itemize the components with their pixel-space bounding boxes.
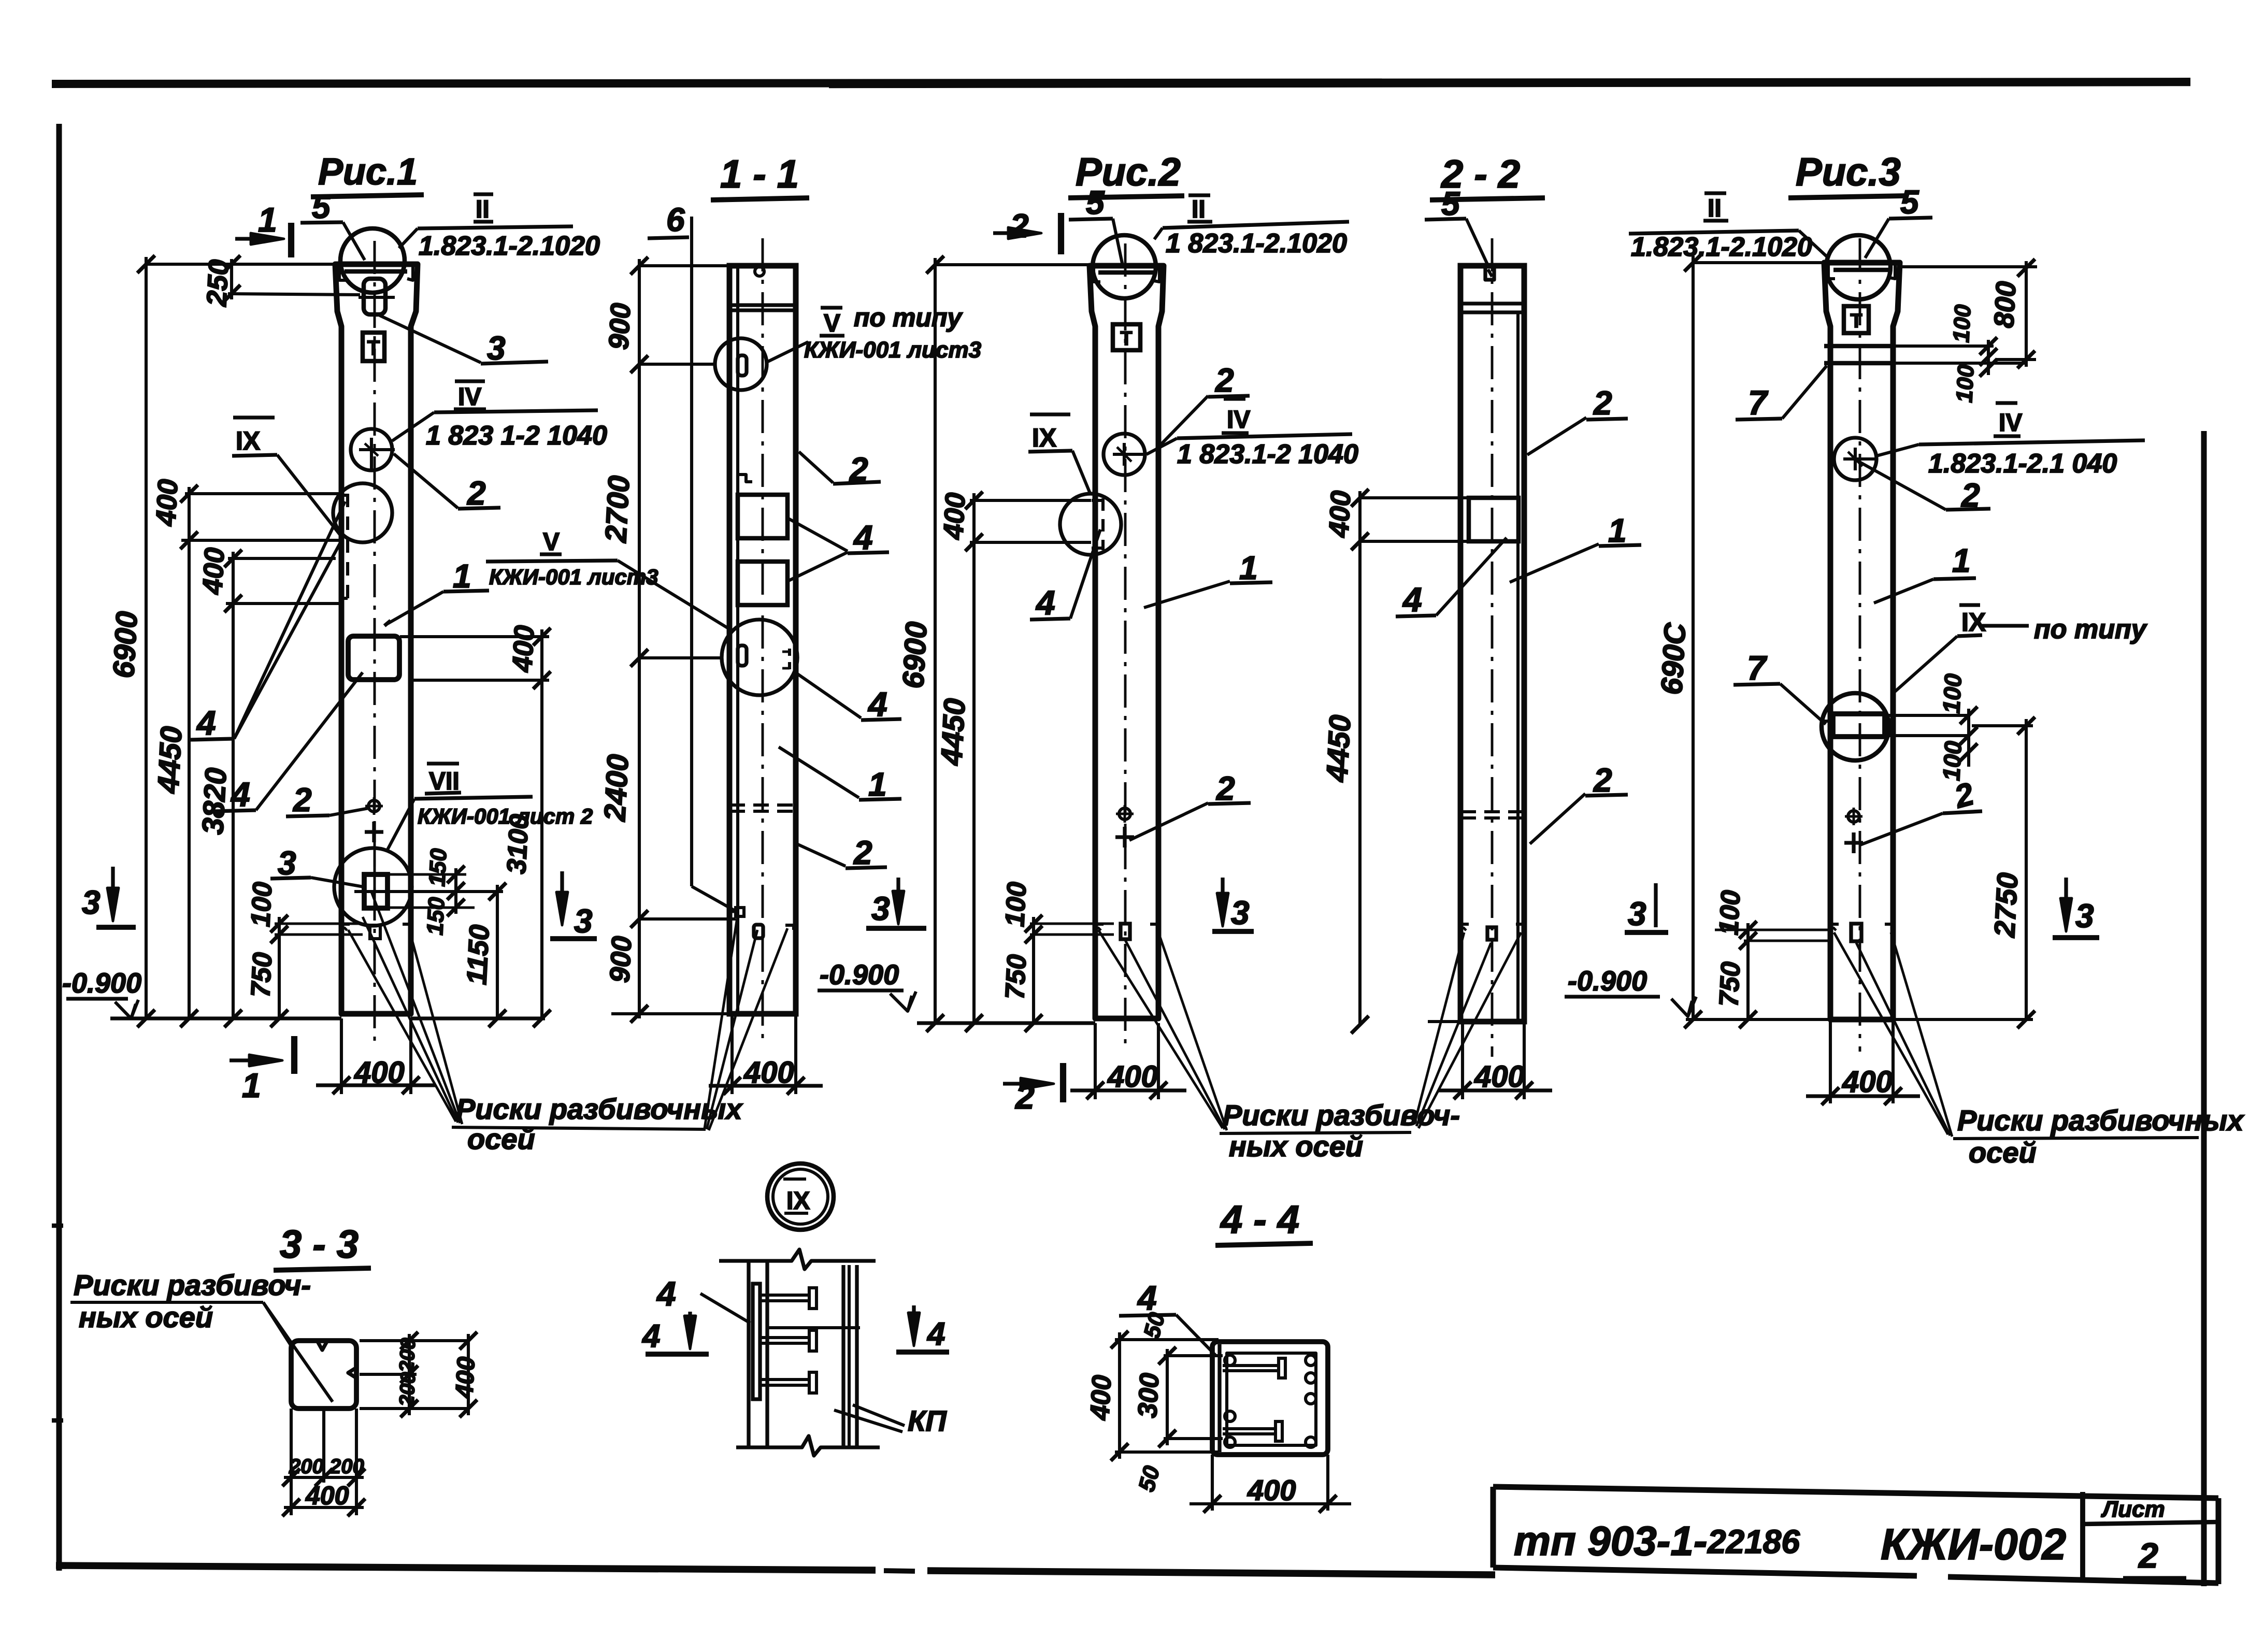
fig3 dim 100 100 upper (1987, 340, 1990, 375)
fig2 bottom ext lines (1094, 1023, 1097, 1099)
svg-text:22186: 22186 (1707, 1523, 1800, 1560)
fig1 bottom dash mark right (403, 924, 411, 932)
svg-text:КЖИ-001 лист3: КЖИ-001 лист3 (804, 337, 981, 363)
fig3 bottom ext lines (1829, 1019, 1832, 1103)
svg-text:Т: Т (1850, 310, 1862, 332)
svg-text:ных осей: ных осей (79, 1301, 213, 1333)
fig2-2 top band lines (1460, 301, 1524, 305)
fig1 dim line 4450 (188, 487, 191, 1018)
fig2-2 break dashes (1460, 810, 1524, 813)
fig3 callout circle II (1826, 235, 1890, 299)
svg-text:Рис.1: Рис.1 (318, 151, 418, 193)
fig1 bottom square 3 (364, 874, 388, 908)
svg-text:400: 400 (1842, 1065, 1893, 1099)
titleblock list divider horizontal (2083, 1522, 2218, 1524)
svg-text:1.823.1-2.1020: 1.823.1-2.1020 (419, 231, 600, 261)
fig1 head corner hook right (407, 267, 413, 280)
fig2-2 top notch (1485, 266, 1494, 280)
d33 notch top (317, 1341, 327, 1350)
d44 stud 1 (1223, 1364, 1279, 1367)
svg-text:1 - 1: 1 - 1 (720, 152, 799, 196)
svg-text:Риски разбивочных: Риски разбивочных (456, 1093, 743, 1125)
fig1-1 loop circle top (715, 338, 767, 390)
bottom border line (56, 1565, 876, 1570)
fig1 hole rect 4 (348, 636, 399, 680)
fig2-2 inner edge line (1516, 312, 1520, 1022)
fig1 callout circle VII (334, 848, 412, 926)
svg-text:5: 5 (1900, 183, 1919, 221)
svg-text:250: 250 (201, 259, 235, 308)
fig1 dim extension 1033 (181, 539, 342, 542)
fig1 T mark box (363, 333, 384, 361)
svg-text:2750: 2750 (1988, 872, 2024, 939)
titleblock outer bottom (1493, 1568, 1917, 1576)
svg-text:3: 3 (871, 890, 890, 927)
fig2 left dim 400 4450 (972, 493, 976, 1023)
svg-text:400: 400 (938, 492, 971, 541)
svg-text:400: 400 (1107, 1060, 1158, 1094)
fig2 strand cross IV (1113, 453, 1146, 456)
fig2-2 bottom dash mark right (1516, 924, 1524, 932)
fig3 head corner hook right (1889, 265, 1895, 279)
fig1 dim extension 250 level (228, 294, 360, 295)
left border line (56, 124, 62, 1571)
fig1-1 bottom dash c (785, 924, 794, 927)
fig3 head corner hook left (1828, 265, 1835, 279)
svg-text:400: 400 (150, 479, 184, 527)
svg-text:II: II (1708, 195, 1722, 222)
svg-text:осей: осей (1969, 1136, 2037, 1169)
fig1-1 top notch (755, 267, 764, 276)
fig3 bottom dash mark left (1830, 924, 1839, 932)
svg-text:2: 2 (1593, 384, 1612, 422)
svg-text:3100: 3100 (501, 813, 535, 875)
fig1-1 left dim line (638, 259, 641, 1018)
fig1 dim 150 150 (454, 868, 457, 914)
svg-text:Риски разбивочных: Риски разбивочных (1957, 1104, 2245, 1137)
svg-text:3: 3 (1628, 895, 1646, 932)
svg-text:1 823 1-2 1040: 1 823 1-2 1040 (426, 421, 607, 451)
titleblock outer left (1491, 1487, 1496, 1568)
svg-text:4450: 4450 (1320, 714, 1357, 783)
svg-text:-0.900: -0.900 (820, 959, 899, 990)
fig2-2 riski fan right (1414, 932, 1464, 1124)
svg-text:по типу: по типу (2034, 614, 2148, 644)
fig3 slot 7 lower (1833, 714, 1885, 737)
svg-text:1.823.1-2.1020: 1.823.1-2.1020 (1631, 232, 1812, 262)
fig2 centerline (1124, 243, 1127, 1044)
svg-text:4450: 4450 (151, 725, 189, 794)
fig2 dim 400 bottom (1070, 1088, 1186, 1092)
svg-text:100: 100 (1938, 673, 1967, 714)
fig1 dim line 6900 (145, 257, 148, 1018)
fig2 bottom small square (1121, 924, 1130, 939)
fig2 column outline (1090, 266, 1164, 1018)
svg-text:400: 400 (1247, 1474, 1296, 1506)
d44 dim 400 bottom (1190, 1502, 1351, 1505)
svg-text:-0.900: -0.900 (62, 968, 141, 999)
fig1 dim line 1150 (496, 885, 499, 1018)
fig1-1 loop circle mid (722, 620, 797, 695)
fig2-2 ground line (1428, 1020, 1460, 1023)
d33 square (291, 1341, 356, 1409)
fig1-1 left dim extensions (639, 264, 729, 267)
fig1 cross mark 2 (365, 830, 383, 834)
svg-text:Риски разбивоч-: Риски разбивоч- (74, 1269, 311, 1301)
svg-text:II: II (476, 196, 490, 223)
fig2 bottom dash mark right (1150, 924, 1158, 932)
fig1-1 column outline (729, 266, 796, 1014)
svg-text:1 823.1-2 1040: 1 823.1-2 1040 (1177, 439, 1358, 469)
fig3 dim 400 bottom (1806, 1094, 1920, 1098)
titleblock list divider vertical (2080, 1492, 2085, 1580)
titleblock outer top (1493, 1487, 2218, 1498)
svg-text:400: 400 (197, 547, 231, 596)
fig3 bottom small square (1851, 924, 1861, 941)
svg-text:2: 2 (1216, 770, 1235, 807)
dIX bottom break line (736, 1436, 880, 1456)
fig2 head corner hook right (1154, 268, 1159, 282)
left fold mark (52, 1224, 63, 1228)
fig2-2 bottom small square (1487, 927, 1496, 940)
svg-text:6900: 6900 (107, 610, 144, 679)
svg-text:400: 400 (507, 625, 540, 673)
d33 dim 400 bottom (284, 1506, 364, 1509)
fig3 band 7 upper (1824, 344, 1893, 349)
svg-text:4: 4 (1402, 580, 1422, 619)
svg-text:400: 400 (1085, 1374, 1117, 1421)
fig3 dim 800 (2025, 261, 2028, 367)
fig1-1 dim 400 bottom (709, 1084, 823, 1087)
fig2 section marker 3 right (1221, 878, 1224, 920)
left fold mark 2 (52, 1418, 63, 1423)
fig2 left dim 6900 (934, 258, 937, 1023)
d33 dim 400 right (467, 1334, 470, 1415)
d44 square (1212, 1342, 1328, 1455)
svg-text:4: 4 (1035, 583, 1055, 622)
fig2 head corner hook left (1094, 268, 1100, 282)
fig3 strand cross IV (1843, 457, 1876, 461)
svg-text:400: 400 (305, 1481, 349, 1510)
fig3 left ext top (1693, 261, 1824, 264)
svg-text:1: 1 (258, 200, 277, 239)
fig1 callout circle II (340, 228, 405, 293)
dIX plate (753, 1284, 760, 1399)
svg-text:800: 800 (1988, 281, 2022, 329)
fig1 centerline (374, 241, 376, 1041)
fig3 small eye 2 (1848, 811, 1859, 822)
svg-text:4: 4 (641, 1318, 660, 1354)
svg-text:Лист: Лист (2101, 1497, 2165, 1522)
fig2-2 centerline (1491, 238, 1494, 1057)
svg-text:400: 400 (451, 1356, 480, 1400)
svg-text:2: 2 (293, 781, 312, 818)
svg-text:II: II (1192, 196, 1206, 223)
fig2 left ext 1047 (970, 541, 1091, 544)
d33 leader (263, 1302, 291, 1346)
fig2 dashed bracket (1101, 498, 1105, 550)
svg-text:IV: IV (1227, 406, 1250, 434)
svg-text:100: 100 (1952, 364, 1979, 403)
svg-text:Т: Т (367, 337, 380, 360)
fig1 ground line (110, 1016, 341, 1020)
svg-text:V: V (824, 310, 840, 337)
fig1 dim line 3820 (232, 552, 235, 1018)
svg-text:IV: IV (458, 383, 481, 411)
top border line (52, 82, 2190, 84)
svg-text:Рис.3: Рис.3 (1796, 150, 1901, 194)
fig3 callout circle IV (1834, 438, 1876, 480)
d44 dim 300 (1166, 1349, 1169, 1445)
svg-text:IX: IX (786, 1187, 810, 1215)
d44 inner frame (1227, 1353, 1316, 1445)
fig2-2 dim 400 bottom (1438, 1088, 1552, 1092)
fig2-2 dim 400 4450 left (1358, 491, 1362, 1025)
fig1 right ext 1715 (354, 890, 503, 893)
fig1-1 dash marks mid (788, 649, 791, 672)
fig2 cross mark 2 (1115, 835, 1134, 839)
svg-text:3: 3 (1231, 894, 1250, 931)
svg-text:6900: 6900 (896, 621, 934, 689)
fig1 strand cross IV (359, 448, 395, 451)
svg-text:1.823.1-2.1 040: 1.823.1-2.1 040 (1928, 449, 2117, 479)
fig3 riski fan (1834, 932, 1948, 1134)
fig1 dim extension 1078 (228, 557, 336, 560)
svg-text:900: 900 (603, 303, 637, 351)
svg-text:3 - 3: 3 - 3 (280, 1223, 359, 1267)
fig1 dim line 400 right (540, 629, 543, 1018)
svg-text:3820: 3820 (196, 767, 233, 835)
fig2 bottom dash mark left (1095, 924, 1104, 932)
fig1 dim extension top (146, 263, 335, 266)
fig3 slot ext right (1885, 714, 1969, 717)
svg-text:750: 750 (1714, 961, 1746, 1008)
svg-text:150: 150 (422, 896, 450, 936)
svg-text:по типу: по типу (854, 303, 963, 332)
svg-text:1150: 1150 (461, 924, 495, 986)
fig3 column outline (1824, 263, 1900, 1019)
fig3 band ext right (1893, 344, 1994, 348)
fig2 bottom-left dim 750 100 (1032, 917, 1035, 1023)
dIX right edge lines (841, 1265, 845, 1446)
fig1 dim ext 1804 (275, 933, 363, 936)
fig2 ground line (917, 1021, 1095, 1025)
d44 stud 2 (1223, 1427, 1276, 1430)
svg-text:200: 200 (289, 1455, 324, 1478)
svg-text:1: 1 (242, 1066, 261, 1104)
svg-text:Т: Т (1120, 328, 1132, 350)
svg-text:900: 900 (604, 936, 638, 984)
fig2 callout circle IX (1060, 494, 1121, 555)
svg-text:200: 200 (395, 1338, 420, 1374)
fig1-1 rect 4b (738, 562, 787, 605)
fig1 dim line 750 100 (278, 917, 281, 1018)
fig1 callout circle IV (351, 429, 392, 470)
svg-text:400: 400 (1323, 490, 1357, 539)
svg-text:2: 2 (2138, 1536, 2158, 1575)
svg-text:4: 4 (867, 685, 887, 723)
fig1-1 loop detail top (738, 355, 747, 376)
fig2 riski fan (1098, 930, 1223, 1128)
fig1 dim ext 1783 (275, 923, 363, 925)
svg-text:3: 3 (2075, 897, 2094, 935)
dIX marker 4 right (912, 1305, 915, 1340)
svg-text:2700: 2700 (599, 475, 636, 543)
d44 dim 400 left (1118, 1332, 1121, 1459)
svg-text:тп 903-1-: тп 903-1- (1514, 1518, 1707, 1564)
svg-text:7: 7 (1748, 383, 1769, 422)
fig3 callout circle IX (1822, 693, 1889, 760)
fig1 dim extension 1165 (226, 602, 342, 605)
dIX top break line (719, 1249, 876, 1269)
svg-text:4: 4 (656, 1274, 676, 1313)
fig1 right ext 1313 (411, 679, 549, 682)
svg-text:КЖИ-002: КЖИ-002 (1881, 1520, 2066, 1569)
d33 dim 200 200 bottom (284, 1476, 364, 1479)
svg-text:200: 200 (395, 1372, 420, 1408)
svg-text:2: 2 (1215, 362, 1234, 399)
fig2 left ext top (935, 263, 1089, 266)
svg-text:2400: 2400 (598, 753, 635, 822)
fig3 dim 2750 (2025, 719, 2028, 1019)
svg-text:750: 750 (246, 952, 278, 998)
svg-text:-0.900: -0.900 (1568, 966, 1647, 997)
fig1-1 rect 4a (738, 495, 787, 538)
fig1 callout circle IX (333, 483, 392, 542)
fig1-1 inner edge line (736, 266, 739, 1014)
fig3 dim 100 100 lower (1967, 709, 1970, 767)
dIX badge circle (767, 1163, 834, 1230)
fig3 bottom-left ext (1715, 929, 1829, 931)
d33 bottom ext (290, 1409, 293, 1515)
fig1 dim 400 bottom (316, 1083, 435, 1087)
fig3 ground line (1686, 1018, 1830, 1021)
svg-text:5: 5 (312, 188, 331, 225)
fig1 dashed slot (346, 494, 349, 600)
fig2-2 rect 4 (1469, 498, 1518, 541)
fig1 bottom dash mark left (341, 924, 350, 932)
fig1 column pile outline (335, 264, 418, 1014)
svg-text:1: 1 (453, 557, 471, 595)
svg-text:1: 1 (1952, 542, 1971, 579)
svg-text:690С: 690С (1655, 622, 1692, 696)
fig3 bottom-left dim 750 100 (1746, 923, 1750, 1019)
svg-text:400: 400 (743, 1056, 794, 1089)
fig1 head corner hook left (339, 267, 346, 280)
fig1 bottom small square (370, 925, 380, 939)
svg-text:6: 6 (666, 201, 685, 238)
titleblock outer right (2216, 1498, 2222, 1584)
svg-text:100: 100 (1938, 740, 1967, 782)
fig2 T mark box (1113, 324, 1140, 350)
fig1-1 break dashes (729, 803, 796, 807)
svg-text:200: 200 (329, 1455, 364, 1478)
d33 dim 200 200 right (408, 1334, 411, 1415)
fig2 bottom-left ext (1030, 923, 1114, 925)
svg-text:3: 3 (574, 902, 593, 940)
svg-text:3: 3 (82, 884, 101, 921)
fig2-2 bottom dash mark left (1460, 924, 1469, 932)
svg-text:КП: КП (908, 1404, 947, 1437)
fig1-1 centerline (762, 238, 764, 1041)
fig1 right ext 1229 (400, 635, 549, 638)
svg-text:4: 4 (853, 518, 873, 556)
svg-text:IX: IX (236, 426, 260, 455)
svg-text:2: 2 (1593, 762, 1612, 799)
fig3 head cap line (1833, 268, 1891, 272)
fig2 small eye 2 (1119, 808, 1130, 820)
fig3 T mark box (1844, 306, 1869, 333)
fig1-1 bottom ext lines (730, 1014, 734, 1094)
svg-text:100: 100 (246, 881, 278, 928)
dIX leader left (700, 1294, 750, 1323)
dIX stud 2 (760, 1336, 809, 1339)
fig2-2 rect ext lines (1360, 496, 1469, 499)
fig1-1 riski fan right (705, 914, 738, 1128)
fig3 left dim 6900 (1692, 256, 1695, 1019)
dIX stud 3 (760, 1378, 809, 1381)
svg-text:4 - 4: 4 - 4 (1220, 1198, 1299, 1242)
fig1 bottom ext lines (340, 1018, 343, 1094)
dIX left edge lines (747, 1261, 750, 1447)
fig2-2 bottom ext lines (1461, 1022, 1464, 1099)
svg-text:100: 100 (1000, 881, 1032, 928)
svg-text:5: 5 (1086, 184, 1105, 221)
fig2-2 column outline (1460, 266, 1524, 1022)
fig3 section marker 3 right (2064, 878, 2068, 925)
fig1-1 hook step (738, 475, 752, 492)
svg-text:300: 300 (1133, 1372, 1165, 1419)
svg-text:V: V (543, 528, 560, 556)
svg-text:4: 4 (926, 1316, 945, 1352)
svg-text:400: 400 (354, 1056, 405, 1089)
svg-text:IX: IX (1032, 423, 1056, 452)
dIX mid line (768, 1326, 860, 1329)
svg-text:4: 4 (196, 703, 216, 742)
fig2 callout circle IV (1104, 434, 1145, 475)
svg-text:150: 150 (424, 847, 452, 887)
dIX stud 1 (760, 1294, 809, 1297)
svg-text:400: 400 (1474, 1060, 1525, 1094)
fig2 callout circle II (1093, 235, 1156, 298)
svg-text:5: 5 (1441, 185, 1460, 222)
fig1-1 top band lines (729, 303, 796, 307)
svg-text:100: 100 (1948, 304, 1976, 343)
fig1 small eye 2 (368, 800, 380, 812)
fig3 cross mark 2 (1844, 841, 1863, 844)
fig1 dim extension 944 (185, 492, 342, 495)
svg-text:7: 7 (1747, 649, 1768, 687)
fig1 riski fan (348, 930, 456, 1122)
svg-text:IX: IX (1961, 608, 1986, 637)
svg-text:1 823.1-2.1020: 1 823.1-2.1020 (1166, 228, 1347, 258)
svg-text:3: 3 (278, 844, 296, 882)
fig1 lifting loop 3 (364, 279, 385, 314)
d44 bottom ext (1211, 1455, 1214, 1511)
fig1 head cap line (345, 269, 407, 274)
d44 left plate (1217, 1344, 1221, 1452)
fig2 left ext 966 (970, 499, 1091, 502)
fig1-1 loop detail mid (738, 645, 747, 666)
fig3 bottom dash mark right (1885, 924, 1893, 932)
fig2 head cap line (1098, 270, 1156, 275)
fig3 centerline (1859, 238, 1861, 1052)
d33 notch right (348, 1368, 356, 1378)
fig1 section marker 3 right (560, 871, 564, 918)
fig1-1 bottom square a (736, 908, 744, 916)
svg-text:IV: IV (1999, 409, 2022, 437)
fig1 dim line 250 (230, 259, 233, 299)
